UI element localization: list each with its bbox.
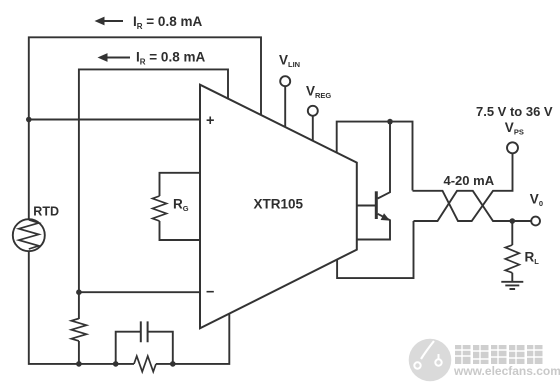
svg-text:IR = 0.8 mA: IR = 0.8 mA [133,14,202,31]
svg-text:4-20 mA: 4-20 mA [444,173,495,188]
svg-text:IR = 0.8 mA: IR = 0.8 mA [136,50,205,67]
svg-text:7.5 V to 36 V: 7.5 V to 36 V [476,104,553,119]
svg-text:www.elecfans.com: www.elecfans.com [453,364,560,378]
svg-text:+: + [206,113,214,129]
svg-text:RTD: RTD [33,205,59,219]
svg-text:−: − [206,285,214,301]
svg-text:XTR105: XTR105 [254,197,304,212]
